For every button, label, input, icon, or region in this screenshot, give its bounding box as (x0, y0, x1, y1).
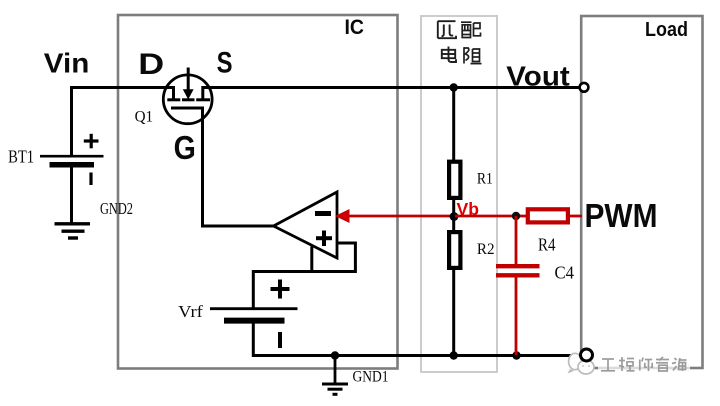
resistor R1 (449, 162, 460, 198)
label glyph dian (resistor) (442, 47, 456, 63)
transistor Q1 drain bar (172, 86, 175, 99)
battery BT1 negative plate (50, 162, 95, 168)
wire: op-amp plus pin stub (310, 247, 313, 272)
label glyph pi (matching) (438, 21, 456, 38)
svg-text:PWM: PWM (585, 197, 658, 234)
svg-text:G: G (174, 129, 196, 167)
svg-text:S: S (217, 46, 233, 79)
svg-text:Load: Load (645, 19, 688, 41)
resistor R2 (449, 232, 460, 268)
svg-text:Vin: Vin (44, 47, 90, 78)
svg-text:R1: R1 (477, 171, 493, 188)
ground GND2 symbol (55, 224, 91, 238)
node: GND1 junction (331, 351, 339, 359)
transistor Q1 body arrow (183, 68, 194, 100)
op-amp inverting input minus sign (315, 211, 331, 216)
wire: op-amp plus input step to Vrf (253, 243, 355, 309)
capacitor C4 top plate (red) (496, 264, 540, 268)
battery BT1 minus mark (89, 173, 92, 186)
transistor Q1 gate plate (171, 107, 204, 110)
op-amp U1 triangle (274, 192, 338, 258)
svg-text:IC: IC (345, 16, 365, 39)
label glyph zu (resistor) (464, 47, 482, 63)
node Vb junction dot (450, 212, 459, 221)
op-amp non-inverting input plus sign (316, 231, 332, 247)
wire: GND1 stub (334, 356, 337, 384)
wire: battery BT1 to ground GND2 (70, 167, 73, 223)
wire: top node to R1 (452, 88, 455, 162)
watermark logo bubble (568, 353, 595, 374)
svg-text:R2: R2 (477, 241, 495, 258)
battery Vrf plus sign (271, 280, 290, 299)
Load block box (581, 16, 702, 368)
resistor R4 (red) (528, 209, 568, 222)
wire: R2 to bottom rail (452, 269, 455, 356)
battery Vrf positive plate (210, 307, 298, 310)
wire: R1 to R2 (node Vb) (452, 199, 455, 231)
wire: red down to C4 (515, 216, 518, 265)
svg-text:GND1: GND1 (353, 369, 389, 386)
watermark text engineer-sea (598, 355, 690, 372)
IC block box (118, 15, 398, 369)
terminal circle: Vout at Load (580, 83, 589, 92)
transistor Q1 channel segments (167, 98, 210, 101)
svg-text:R4: R4 (538, 234, 556, 254)
wire: red feedback line from Vb to op-amp with arrowhead (335, 209, 455, 223)
wire: red C4 to bottom rail (515, 278, 518, 356)
wire: red Vb to R4 (455, 215, 527, 218)
battery BT1 positive plate (40, 155, 104, 158)
label glyph pei (matching) (461, 22, 481, 37)
terminal circle: Load bottom (581, 349, 593, 361)
node: R2 bottom junction (450, 351, 458, 359)
svg-text:C4: C4 (555, 263, 575, 283)
node: top rail junction to R1 (450, 83, 458, 91)
ground GND1 symbol (322, 384, 348, 394)
wire: Q1 source to Vout terminal (203, 86, 581, 89)
wire: bottom ground rail (253, 354, 579, 357)
transistor Q1 source bar (201, 86, 204, 99)
battery Vrf negative plate (224, 318, 285, 324)
svg-text:Vout: Vout (506, 60, 569, 91)
svg-text:BT1: BT1 (8, 147, 34, 167)
wire: Vin top rail from battery corner to Q1 drain (72, 88, 175, 157)
transistor Q1 body circle (163, 75, 212, 124)
matching-resistor block box (matching resistors) (421, 16, 497, 372)
capacitor C4 bottom plate (red) (496, 273, 540, 277)
wire: red R4 to PWM terminal (569, 215, 582, 218)
svg-text:Q1: Q1 (135, 109, 154, 126)
node: red junction to C4 (512, 212, 520, 220)
battery Vrf minus mark (278, 332, 282, 348)
node: C4 bottom junction (512, 351, 520, 359)
svg-text:Vrf: Vrf (178, 302, 203, 321)
svg-text:GND2: GND2 (100, 199, 133, 218)
battery BT1 plus sign (84, 134, 99, 149)
svg-text:D: D (138, 47, 164, 80)
wire: Vrf to bottom rail (252, 324, 255, 358)
wire: gate down to op-amp output (203, 108, 275, 226)
